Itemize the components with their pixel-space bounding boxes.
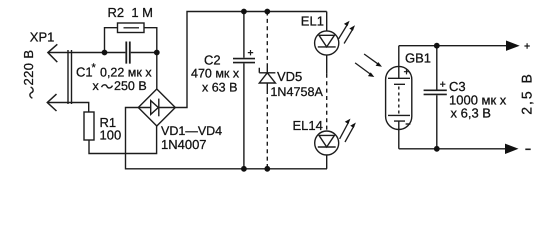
svg-text:XP1: XP1 [30, 29, 55, 44]
svg-text:VD5: VD5 [277, 69, 302, 84]
svg-text:C1: C1 [76, 65, 93, 80]
svg-text:250 В: 250 В [114, 79, 147, 93]
svg-text:GB1: GB1 [405, 51, 431, 66]
svg-text:х 63 В: х 63 В [202, 81, 237, 95]
svg-text:470 мк х: 470 мк х [191, 67, 240, 81]
svg-text:EL1: EL1 [301, 13, 324, 28]
svg-text:100: 100 [100, 128, 122, 143]
svg-text:C2: C2 [204, 53, 221, 68]
svg-text:220 В: 220 В [21, 50, 36, 86]
svg-text:1N4758A: 1N4758A [270, 85, 323, 99]
svg-text:0,22 мк х: 0,22 мк х [100, 66, 152, 80]
svg-text:х 6,3 В: х 6,3 В [451, 106, 491, 121]
svg-text:1N4007: 1N4007 [161, 137, 207, 152]
svg-text:2,5 В: 2,5 В [518, 72, 534, 115]
svg-text:*: * [92, 62, 97, 74]
svg-text:R2 1 M: R2 1 M [108, 5, 154, 20]
svg-text:EL14: EL14 [293, 118, 323, 133]
svg-text:х: х [93, 79, 100, 93]
